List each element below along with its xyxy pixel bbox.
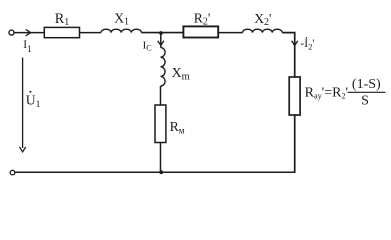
svg-text:R1: R1 xyxy=(55,11,69,28)
svg-text:Ray'=R2': Ray'=R2' xyxy=(305,86,348,101)
svg-text:Rм: Rм xyxy=(170,119,185,136)
svg-text:X1: X1 xyxy=(114,10,129,27)
svg-text:X2': X2' xyxy=(254,11,271,28)
svg-text:R2': R2' xyxy=(194,10,211,27)
svg-text:(1-S): (1-S) xyxy=(352,77,381,92)
svg-text:S: S xyxy=(361,93,369,108)
svg-text:Xm: Xm xyxy=(172,65,190,83)
svg-text:-I2': -I2' xyxy=(300,38,314,52)
svg-text:IC: IC xyxy=(143,39,153,52)
svg-text:U1: U1 xyxy=(26,93,41,110)
svg-text:I1: I1 xyxy=(23,39,32,55)
